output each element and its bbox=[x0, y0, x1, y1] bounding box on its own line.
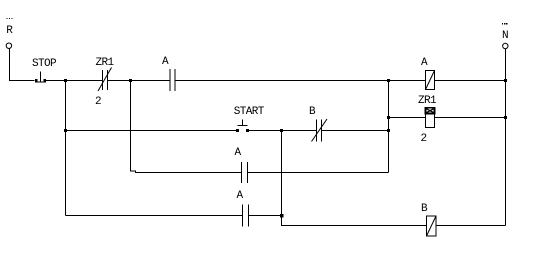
svg-text:ZR1: ZR1 bbox=[95, 57, 114, 69]
junction x=281 rung 4 bbox=[280, 214, 284, 218]
wire rung 2: bus to START bbox=[66, 130, 237, 132]
svg-text:A: A bbox=[236, 190, 243, 202]
svg-text:START: START bbox=[234, 106, 265, 118]
junction right rail rung 1 bbox=[504, 79, 507, 82]
coil A bbox=[426, 71, 435, 90]
wire rung 4: contact A to junction bbox=[249, 215, 282, 217]
svg-text:A: A bbox=[421, 57, 428, 69]
wire rung 1: STOP to ZR1 contact bbox=[46, 80, 103, 82]
pushbutton STOP (NC) symbol bbox=[35, 72, 46, 82]
junction bus ZR1 rung bbox=[387, 116, 390, 119]
junction x=281 rung 2 bbox=[280, 129, 283, 132]
wire left bus x=65 from rung1 down to rung4 bbox=[65, 81, 67, 216]
junction at bus x=388 rung 1 bbox=[387, 79, 390, 82]
contact A (NO) on rung 3 bbox=[242, 162, 248, 183]
pushbutton START (NO) symbol bbox=[236, 120, 249, 132]
node R terminal circle bbox=[6, 43, 12, 49]
node N terminal dots bbox=[502, 23, 508, 24]
svg-text:N: N bbox=[502, 30, 508, 42]
wire rung 1: coil A to right rail bbox=[435, 80, 506, 82]
junction at x=130 rung 1 bbox=[129, 79, 132, 82]
wire rung 3: contact A to bus bbox=[248, 172, 389, 174]
svg-text:ZR1: ZR1 bbox=[418, 95, 437, 107]
wire rung 1: contact A to coil A bbox=[175, 80, 426, 82]
junction bus rung 2 bbox=[387, 129, 390, 132]
wire rung 1: ZR1 contact to contact A bbox=[108, 80, 170, 82]
wire left rail R down to rung 1 bbox=[10, 48, 35, 80]
svg-text:2: 2 bbox=[95, 96, 101, 108]
wire branch x=281 from rung 2 down to bottom rung bbox=[282, 131, 427, 226]
wire bus x=388 from rung 1 down to rung 3 bbox=[388, 81, 390, 173]
wire rung 4: left bus corner to contact A bbox=[66, 215, 243, 217]
wire rung 2: contact B to bus bbox=[322, 130, 389, 132]
contact B (NC) symbol bbox=[312, 119, 328, 142]
svg-text:R: R bbox=[6, 25, 13, 37]
node N terminal circle bbox=[503, 43, 508, 48]
wire right rail N bbox=[505, 49, 507, 226]
coil ZR1 (timer) symbol bbox=[426, 108, 435, 128]
contact A (NO) on rung 1 bbox=[170, 69, 175, 91]
svg-text:B: B bbox=[421, 203, 428, 215]
wire ZR1 rung: bus to coil ZR1 bbox=[389, 117, 426, 119]
junction x=65 rung 2 bbox=[64, 129, 67, 132]
coil B bbox=[427, 216, 437, 236]
svg-text:A: A bbox=[234, 147, 241, 159]
wire ZR1 rung: coil ZR1 to right rail bbox=[435, 117, 506, 119]
wire rung 2: START to contact B bbox=[249, 130, 317, 132]
contact A (NO) on rung 4 bbox=[243, 205, 249, 227]
svg-text:B: B bbox=[309, 106, 316, 118]
wire bottom rung: coil B to right rail bbox=[436, 225, 506, 227]
junction right rail ZR1 rung bbox=[504, 116, 507, 119]
svg-text:2: 2 bbox=[420, 133, 426, 145]
wire branch x=130 down from rung 1 with jog to rung 3 bbox=[131, 81, 242, 173]
junction at x=65 rung 1 bbox=[64, 79, 67, 82]
svg-text:A: A bbox=[162, 56, 169, 68]
timed contact ZR1 (NC) symbol bbox=[98, 68, 112, 92]
node R terminal dots bbox=[6, 18, 12, 19]
svg-text:STOP: STOP bbox=[32, 58, 57, 70]
